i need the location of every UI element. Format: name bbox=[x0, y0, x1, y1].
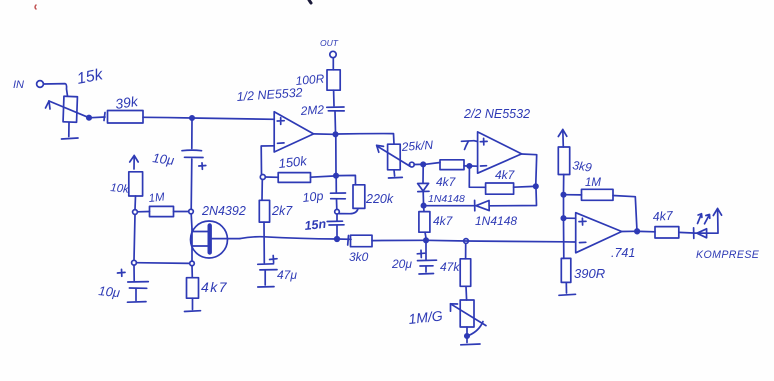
svg-text:15n: 15n bbox=[304, 217, 327, 233]
svg-text:2/2 NE5532: 2/2 NE5532 bbox=[463, 107, 530, 121]
svg-text:1N4148: 1N4148 bbox=[428, 193, 465, 205]
svg-text:4k7: 4k7 bbox=[495, 168, 516, 182]
svg-text:10μ: 10μ bbox=[152, 150, 175, 168]
svg-text:4k7: 4k7 bbox=[436, 175, 457, 189]
svg-text:4k7: 4k7 bbox=[652, 209, 674, 224]
svg-text:.741: .741 bbox=[611, 246, 635, 260]
svg-text:3k9: 3k9 bbox=[572, 158, 593, 175]
svg-text:1M: 1M bbox=[148, 191, 166, 205]
svg-text:1N4148: 1N4148 bbox=[475, 214, 517, 228]
svg-text:20μ: 20μ bbox=[391, 257, 412, 271]
svg-text:220k: 220k bbox=[365, 192, 394, 206]
svg-text:IN: IN bbox=[13, 79, 24, 91]
svg-text:10p: 10p bbox=[302, 189, 324, 205]
svg-text:3k0: 3k0 bbox=[349, 250, 369, 264]
svg-text:4k7: 4k7 bbox=[433, 214, 454, 228]
svg-text:2k7: 2k7 bbox=[271, 204, 293, 218]
svg-text:2N4392: 2N4392 bbox=[201, 204, 246, 218]
svg-text:100R: 100R bbox=[295, 72, 325, 88]
svg-text:4k7: 4k7 bbox=[201, 279, 228, 295]
svg-text:25k/N: 25k/N bbox=[400, 138, 434, 154]
svg-text:1M: 1M bbox=[585, 177, 601, 189]
svg-text:39k: 39k bbox=[114, 93, 140, 112]
svg-text:47μ: 47μ bbox=[277, 268, 297, 282]
svg-text:47k: 47k bbox=[440, 260, 460, 274]
svg-text:OUT: OUT bbox=[320, 38, 339, 48]
svg-text:2M2: 2M2 bbox=[299, 102, 325, 118]
svg-text:150k: 150k bbox=[278, 153, 309, 171]
svg-text:390R: 390R bbox=[574, 266, 605, 281]
svg-text:10k: 10k bbox=[110, 182, 131, 196]
svg-text:KOMPRESE: KOMPRESE bbox=[696, 249, 760, 261]
svg-text:10μ: 10μ bbox=[98, 283, 121, 300]
